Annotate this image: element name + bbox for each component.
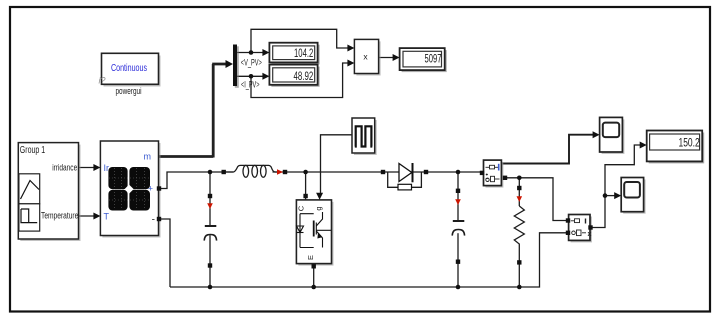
svg-text:Group 1: Group 1 xyxy=(20,145,46,156)
svg-text:T: T xyxy=(104,212,110,222)
svg-text:i?: i? xyxy=(99,76,106,86)
svg-text:x: x xyxy=(588,231,592,238)
svg-text:g: g xyxy=(314,206,323,210)
svg-text:<V_PV>: <V_PV> xyxy=(241,58,262,68)
svg-text:-: - xyxy=(152,215,155,226)
svg-text:irridance: irridance xyxy=(52,162,77,172)
svg-text:E: E xyxy=(306,255,315,260)
svg-text:5097: 5097 xyxy=(425,51,442,65)
svg-text:Continuous: Continuous xyxy=(111,63,147,74)
svg-text:104.2: 104.2 xyxy=(294,46,313,60)
svg-text:<I_PV>: <I_PV> xyxy=(241,80,260,90)
svg-text:150.2: 150.2 xyxy=(679,135,700,149)
svg-text:Temperature: Temperature xyxy=(41,211,78,221)
svg-text:48.92: 48.92 xyxy=(294,69,314,83)
svg-text:powergui: powergui xyxy=(116,86,142,97)
svg-text:Ir: Ir xyxy=(104,163,110,173)
svg-text:m: m xyxy=(144,152,152,162)
svg-text:C: C xyxy=(297,205,306,211)
